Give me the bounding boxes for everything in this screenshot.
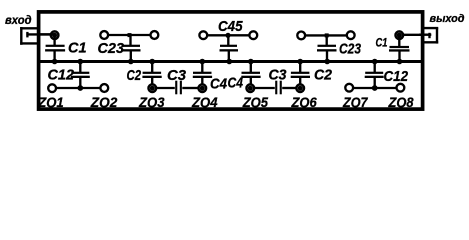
stub pad to C1 left: [53, 35, 55, 45]
svg-text:C4: C4: [228, 76, 244, 92]
svg-text:ZQ4: ZQ4: [191, 94, 218, 110]
crystal socket circle (top pair 2 left): [199, 31, 207, 39]
crystal socket circle (top pair 3 right): [347, 31, 355, 39]
wire ZQ7 to ZQ8: [354, 87, 396, 89]
capacitor C4 (left): [193, 72, 212, 78]
stub C12 right to wire junction: [374, 78, 376, 88]
crystal socket pad ZQ5: [247, 84, 255, 92]
bus junction dot C2 left: [149, 59, 155, 65]
svg-text:C12: C12: [48, 67, 75, 83]
bus junction dot: [227, 59, 233, 65]
stub C1 right to bus: [398, 52, 400, 62]
capacitor C4 (right): [241, 72, 260, 78]
bus junction dot C2 right: [297, 59, 303, 65]
wire C3 right to ZQ6: [282, 87, 296, 89]
crystal socket circle (top pair 1 right): [151, 31, 159, 39]
bus junction dot C12 left: [78, 59, 84, 65]
crystal socket pad ZQ6: [296, 84, 304, 92]
stub C45 to bus: [228, 51, 230, 61]
bus junction dot: [324, 59, 330, 65]
input connector XW1: [20, 27, 38, 45]
stub bus to C2 right: [299, 62, 301, 73]
junction square node: [128, 33, 132, 37]
bus junction dot C4 left: [200, 59, 206, 65]
crystal socket circle (top pair 2 right): [249, 31, 257, 39]
svg-text:ZQ6: ZQ6: [291, 94, 317, 110]
wire pad to border (output): [404, 34, 423, 36]
stub junction to C23 right: [326, 35, 328, 45]
wire C3 to ZQ4: [182, 87, 198, 89]
capacitor C45: [220, 45, 239, 52]
wire ZQ3 to C3: [157, 87, 175, 89]
svg-text:ZQ5: ZQ5: [242, 94, 268, 110]
stub C2 right to ZQ6 pad: [299, 78, 301, 85]
svg-text:ZQ8: ZQ8: [388, 94, 414, 110]
output pin wire: [419, 34, 431, 36]
svg-text:C1: C1: [376, 35, 388, 49]
capacitor C23 (right): [317, 45, 337, 52]
wire pair 2: [208, 34, 249, 36]
stub C4 right to ZQ5 pad: [250, 78, 252, 85]
svg-text:выход: выход: [430, 13, 465, 25]
svg-text:C45: C45: [218, 19, 243, 35]
wire pair 3: [306, 34, 348, 36]
stub bus to C12 right: [374, 62, 376, 73]
stub C23 right to bus: [326, 51, 328, 61]
output pad node: [396, 31, 404, 39]
input pad node: [51, 31, 59, 39]
junction square node: [325, 33, 329, 37]
svg-text:C23: C23: [98, 41, 125, 57]
svg-text:C4: C4: [210, 76, 227, 92]
stub C2 to ZQ3 pad: [151, 78, 153, 85]
ground bus: [39, 60, 423, 63]
capacitor C12 (left): [71, 72, 90, 78]
bus junction dot: [52, 59, 58, 65]
svg-text:C12: C12: [384, 69, 409, 85]
wire ZQ5 to C3 right: [255, 87, 275, 89]
junction dot ZQ1-ZQ2 wire: [77, 85, 83, 91]
bus junction dot: [397, 59, 403, 65]
bus junction dot: [128, 59, 134, 65]
stub junction to C45: [227, 35, 229, 45]
crystal socket pad ZQ3: [149, 84, 157, 92]
stub bus to C2 left: [151, 62, 153, 73]
wire pair 1: [109, 34, 150, 36]
svg-text:C3: C3: [269, 68, 287, 84]
svg-text:C23: C23: [339, 42, 361, 58]
stub C23 to bus: [130, 51, 132, 61]
wire: border to input pad: [39, 33, 55, 35]
output connector XW2: [421, 27, 438, 43]
capacitor C23 (left): [121, 45, 141, 52]
input pin wire: [26, 33, 54, 35]
capacitor C2 (right): [291, 72, 310, 78]
stub bus to C4 right: [250, 62, 252, 73]
capacitor C12 (right): [365, 72, 384, 78]
svg-text:ZQ2: ZQ2: [90, 94, 118, 110]
bus junction dot C4 right: [248, 59, 254, 65]
stub bus to C4 left: [201, 62, 203, 73]
junction dot node: [225, 33, 230, 38]
capacitor C1 (right): [389, 46, 410, 52]
crystal socket ZQ8: [397, 84, 405, 92]
stub C1 to bus: [53, 51, 55, 61]
junction dot ZQ7-ZQ8 wire: [372, 85, 378, 91]
svg-text:C3: C3: [167, 68, 186, 84]
crystal socket circle (top pair 3 left): [297, 32, 305, 40]
stub C4 to ZQ4 pad: [201, 78, 203, 85]
capacitor C1 (left): [45, 45, 65, 52]
bus junction dot C12 right: [372, 59, 378, 65]
crystal socket ZQ7: [345, 84, 353, 92]
stub bus to C12 left: [79, 62, 81, 73]
crystal socket circle (top pair 1 left): [100, 31, 108, 39]
svg-text:ZQ7: ZQ7: [342, 94, 368, 110]
svg-text:вход: вход: [5, 13, 32, 27]
capacitor C2 (left): [142, 72, 161, 78]
wire ZQ1 to ZQ2: [57, 87, 100, 89]
capacitor C3 (left, series): [175, 81, 182, 95]
crystal socket ZQ1: [48, 84, 56, 92]
filter module outline U1: [39, 12, 423, 109]
crystal socket ZQ2: [100, 84, 108, 92]
svg-text:C2: C2: [314, 68, 332, 84]
svg-text:C1: C1: [68, 41, 87, 57]
svg-text:ZQ1: ZQ1: [37, 94, 64, 110]
crystal socket pad ZQ4: [199, 84, 207, 92]
stub pad to C1 right: [398, 35, 400, 46]
stub junction to C23 left: [129, 35, 131, 45]
svg-text:ZQ3: ZQ3: [138, 94, 165, 110]
capacitor C3 (right, series): [275, 81, 282, 95]
stub C12 to wire junction: [79, 78, 81, 88]
svg-text:C2: C2: [127, 68, 142, 84]
